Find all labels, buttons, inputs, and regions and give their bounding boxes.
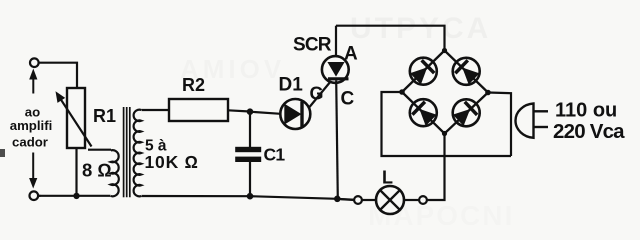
SCR U1 [322,26,349,199]
wire node to D1 [250,112,281,114]
svg-text:amplifi: amplifi [10,118,53,133]
svg-text:D1: D1 [279,75,304,96]
lamp terminal left [354,196,362,204]
R1 wiper arrow [56,91,92,146]
node bridge left vertex [399,89,405,95]
wire right terminal to lamp [404,199,419,201]
node R2/C1 junction [247,108,254,115]
bridge diode D3 (top-right) [447,52,485,90]
wire left vertex to AC rail [382,92,512,156]
svg-text:8 Ω: 8 Ω [82,160,112,181]
svg-text:G: G [310,84,324,104]
svg-text:110 ou: 110 ou [555,100,617,122]
resistor R1 (rheostat) [67,88,85,148]
bridge rectifier diamond wires [402,51,488,134]
node bridge bottom vertex [442,131,447,136]
wire wiper to primary [88,149,111,151]
svg-text:cador: cador [12,134,48,149]
node bridge top vertex [442,48,447,53]
svg-text:C1: C1 [264,145,286,165]
wire top rail SCR anode to bridge [336,26,445,51]
node SCR cathode-rail junction [334,196,341,203]
wire R1 bottom to rail [75,148,77,196]
svg-text:220 Vca: 220 Vca [553,120,625,143]
bottom rail wire [38,196,354,200]
svg-text:R1: R1 [93,106,116,126]
wire left terminal to cathode rail [341,198,355,201]
terminal top-left [30,58,39,67]
wire D1 gate line to SCR [310,81,332,107]
svg-text:A: A [344,44,358,65]
arrow down (to bottom terminal) [29,153,37,189]
transformer core [124,107,130,197]
svg-text:10K Ω: 10K Ω [145,152,199,172]
lamp L [376,186,404,214]
svg-text:SCR: SCR [293,35,332,56]
node C1-rail junction [247,193,254,200]
lamp terminal right [419,196,427,204]
wire bridge bottom vertex to lamp [427,134,445,201]
transformer T1 secondary winding [134,110,142,197]
wire lamp to left terminal [362,199,376,201]
svg-text:L: L [382,168,393,188]
diode D1 [280,99,310,129]
bridge diode D2 (top-left) [404,52,442,90]
arrow up (to top terminal) [29,69,37,94]
wire terminal to R1 top [39,63,77,88]
wire secondary to R2 [142,109,170,111]
svg-text:UTPYCA: UTPYCA [350,12,491,45]
wire right vertex to plug [488,93,511,157]
capacitor C1 [235,112,261,197]
edge smudge left [0,149,5,157]
plug AC line [515,104,548,138]
wire bottom terminal to rail [38,195,40,197]
resistor R2 [169,99,228,121]
transformer T1 primary winding [111,150,119,196]
wire R2 to node [228,110,250,111]
bridge diode D5 (bottom-right) [447,94,485,132]
svg-text:C: C [341,89,355,110]
label ao amplificador [10,105,53,150]
node bridge right vertex [485,90,491,96]
node R1-rail junction [73,193,79,199]
bridge diode D4 (bottom-left) [404,94,442,132]
svg-text:R2: R2 [182,75,205,95]
terminal bottom-left [30,191,39,200]
